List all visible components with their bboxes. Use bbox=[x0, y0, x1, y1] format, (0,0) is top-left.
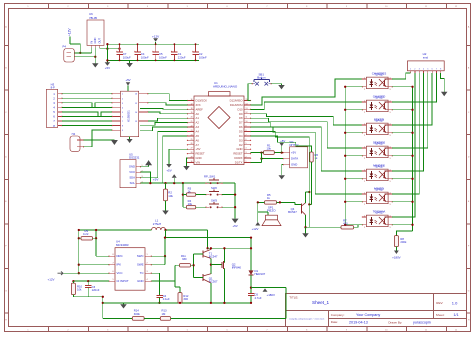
svg-text:TLP627: TLP627 bbox=[374, 142, 384, 146]
svg-text:TITLE:: TITLE: bbox=[289, 295, 298, 299]
svg-text:100nF: 100nF bbox=[141, 55, 149, 59]
svg-text:16: 16 bbox=[135, 94, 137, 96]
svg-text:D8: D8 bbox=[239, 116, 243, 120]
svg-text:11: 11 bbox=[246, 117, 248, 119]
svg-text:TLP627: TLP627 bbox=[374, 96, 384, 100]
svg-text:0.22: 0.22 bbox=[83, 232, 89, 236]
svg-text:275uH: 275uH bbox=[153, 222, 161, 226]
svg-text:D11/MOSI: D11/MOSI bbox=[230, 103, 243, 107]
svg-text:7: 7 bbox=[246, 134, 247, 136]
svg-text:8: 8 bbox=[112, 254, 113, 256]
svg-text:RP_SW1: RP_SW1 bbox=[204, 174, 216, 178]
svg-text:7: 7 bbox=[112, 263, 113, 265]
svg-text:13: 13 bbox=[135, 121, 137, 123]
svg-text:1: 1 bbox=[410, 69, 411, 71]
svg-text:3V3: 3V3 bbox=[196, 103, 201, 107]
svg-text:4: 4 bbox=[390, 215, 391, 217]
svg-text:22: 22 bbox=[191, 125, 193, 127]
svg-text:+12V: +12V bbox=[152, 35, 160, 39]
svg-text:+12V: +12V bbox=[252, 227, 259, 231]
svg-text:GND: GND bbox=[291, 163, 297, 167]
svg-text:GND: GND bbox=[137, 279, 143, 283]
svg-text:2: 2 bbox=[364, 158, 365, 160]
svg-text:GND: GND bbox=[129, 165, 135, 169]
svg-text:+: + bbox=[152, 49, 154, 53]
svg-text:300k: 300k bbox=[134, 312, 141, 316]
svg-text:HER107: HER107 bbox=[255, 272, 266, 276]
svg-text:GND: GND bbox=[93, 38, 97, 44]
svg-text:+5V: +5V bbox=[125, 78, 130, 82]
svg-text:10k: 10k bbox=[188, 202, 193, 206]
svg-text:120nF: 120nF bbox=[92, 288, 100, 292]
svg-text:A6: A6 bbox=[196, 138, 200, 142]
svg-text:2: 2 bbox=[364, 112, 365, 114]
svg-text:TLP627: TLP627 bbox=[374, 165, 384, 169]
svg-text:5: 5 bbox=[246, 143, 247, 145]
svg-text:Sheet:: Sheet: bbox=[436, 313, 445, 317]
svg-text:1: 1 bbox=[364, 77, 365, 79]
svg-text:10k: 10k bbox=[267, 147, 272, 151]
svg-text:28: 28 bbox=[191, 152, 193, 154]
svg-text:3: 3 bbox=[390, 112, 391, 114]
svg-text:+5V: +5V bbox=[105, 66, 110, 70]
svg-text:SWC: SWC bbox=[137, 254, 144, 258]
svg-text:12: 12 bbox=[246, 112, 248, 114]
svg-text:3: 3 bbox=[246, 152, 247, 154]
svg-text:3: 3 bbox=[419, 69, 420, 71]
svg-text:78L05: 78L05 bbox=[89, 16, 97, 20]
svg-text:K155ID1: K155ID1 bbox=[127, 110, 131, 122]
svg-text:smd: smd bbox=[423, 55, 429, 59]
svg-text:10k: 10k bbox=[168, 194, 173, 198]
svg-text:+: + bbox=[116, 49, 118, 53]
svg-text:4: 4 bbox=[390, 123, 391, 125]
svg-text:6: 6 bbox=[122, 116, 123, 118]
svg-text:yurascopin: yurascopin bbox=[413, 321, 431, 325]
svg-text:+5V: +5V bbox=[153, 178, 160, 182]
svg-text:CI INPUT: CI INPUT bbox=[117, 279, 129, 283]
svg-text:DATA: DATA bbox=[291, 157, 298, 161]
svg-text:4: 4 bbox=[390, 146, 391, 148]
svg-text:330: 330 bbox=[182, 257, 187, 261]
svg-text:1: 1 bbox=[246, 161, 247, 163]
svg-text:0.1uF: 0.1uF bbox=[163, 297, 170, 301]
svg-text:D2: D2 bbox=[239, 143, 243, 147]
svg-text:3: 3 bbox=[122, 103, 123, 105]
svg-text:2: 2 bbox=[246, 156, 247, 158]
svg-text:P4: P4 bbox=[63, 45, 67, 49]
svg-text:17: 17 bbox=[191, 103, 193, 105]
svg-text:D7: D7 bbox=[239, 121, 243, 125]
svg-text:2: 2 bbox=[364, 89, 365, 91]
svg-text:1: 1 bbox=[364, 215, 365, 217]
svg-text:ARDUINO_NANO: ARDUINO_NANO bbox=[213, 85, 238, 89]
svg-text:A0: A0 bbox=[196, 112, 200, 116]
svg-text:TC: TC bbox=[140, 271, 144, 275]
svg-text:27: 27 bbox=[191, 148, 193, 150]
svg-text:1: 1 bbox=[147, 254, 148, 256]
svg-text:4: 4 bbox=[390, 192, 391, 194]
svg-text:14: 14 bbox=[246, 103, 248, 105]
svg-text:2: 2 bbox=[364, 204, 365, 206]
svg-text:+180V: +180V bbox=[267, 293, 276, 297]
svg-text:TLP627: TLP627 bbox=[374, 73, 384, 77]
svg-text:7: 7 bbox=[436, 69, 437, 71]
svg-text:10k: 10k bbox=[77, 288, 82, 292]
svg-text:100uF: 100uF bbox=[123, 55, 131, 59]
svg-text:4: 4 bbox=[390, 77, 391, 79]
svg-text:VIN: VIN bbox=[196, 161, 201, 165]
svg-text:16: 16 bbox=[191, 99, 193, 101]
svg-text:100nF: 100nF bbox=[159, 55, 167, 59]
svg-text:MC34063: MC34063 bbox=[116, 243, 129, 247]
svg-text:21: 21 bbox=[191, 121, 193, 123]
svg-text:+5V: +5V bbox=[196, 147, 201, 151]
svg-text:220uF: 220uF bbox=[178, 55, 186, 59]
svg-text:1: 1 bbox=[364, 100, 365, 102]
svg-text:A3: A3 bbox=[196, 125, 200, 129]
svg-text:+12V: +12V bbox=[68, 28, 72, 36]
svg-text:100nF: 100nF bbox=[199, 55, 207, 59]
svg-text:D4: D4 bbox=[239, 134, 243, 138]
svg-text:1: 1 bbox=[364, 192, 365, 194]
svg-text:RESET: RESET bbox=[196, 152, 205, 156]
svg-text:9: 9 bbox=[246, 125, 247, 127]
svg-text:+: + bbox=[171, 49, 173, 53]
svg-text:25: 25 bbox=[191, 139, 193, 141]
svg-text:A7: A7 bbox=[196, 143, 200, 147]
svg-text:GND: GND bbox=[236, 147, 242, 151]
svg-text:+5V: +5V bbox=[232, 224, 237, 228]
svg-text:29: 29 bbox=[191, 156, 193, 158]
svg-text:18: 18 bbox=[191, 108, 193, 110]
svg-text:Date:: Date: bbox=[331, 320, 338, 324]
svg-text:DS3231: DS3231 bbox=[129, 156, 140, 160]
svg-text:6: 6 bbox=[246, 139, 247, 141]
svg-text:+: + bbox=[134, 49, 136, 53]
svg-text:D13/SCK: D13/SCK bbox=[196, 99, 208, 103]
svg-text:26: 26 bbox=[191, 143, 193, 145]
svg-text:3: 3 bbox=[390, 135, 391, 137]
svg-text:3: 3 bbox=[390, 158, 391, 160]
svg-text:D3: D3 bbox=[239, 138, 243, 142]
svg-text:19: 19 bbox=[191, 112, 193, 114]
svg-text:8: 8 bbox=[440, 69, 441, 71]
svg-text:TLP627: TLP627 bbox=[374, 188, 384, 192]
svg-text:4: 4 bbox=[390, 169, 391, 171]
svg-text:+12V: +12V bbox=[48, 278, 55, 282]
svg-text:+180V: +180V bbox=[392, 255, 401, 259]
svg-text:2: 2 bbox=[364, 181, 365, 183]
svg-text:10: 10 bbox=[246, 121, 248, 123]
svg-text:TLP627: TLP627 bbox=[374, 211, 384, 215]
svg-text:4.7uF: 4.7uF bbox=[255, 296, 262, 300]
svg-text:4: 4 bbox=[122, 107, 123, 109]
svg-text:BC547: BC547 bbox=[288, 210, 297, 214]
svg-text:3: 3 bbox=[390, 89, 391, 91]
svg-text:BC307: BC307 bbox=[209, 280, 218, 284]
svg-text:2: 2 bbox=[414, 69, 415, 71]
svg-text:2: 2 bbox=[364, 227, 365, 229]
svg-text:SWE: SWE bbox=[137, 263, 144, 267]
svg-text:14: 14 bbox=[135, 112, 137, 114]
svg-text:4: 4 bbox=[246, 148, 247, 150]
svg-text:20: 20 bbox=[191, 117, 193, 119]
svg-text:TLP627: TLP627 bbox=[374, 119, 384, 123]
svg-text:SW2: SW2 bbox=[211, 186, 217, 190]
svg-text:200k: 200k bbox=[400, 240, 407, 244]
svg-text:5: 5 bbox=[112, 279, 113, 281]
svg-text:D0/RX: D0/RX bbox=[234, 156, 242, 160]
svg-text:A1: A1 bbox=[196, 116, 200, 120]
svg-text:7: 7 bbox=[122, 121, 123, 123]
svg-text:8-P: 8-P bbox=[51, 86, 55, 90]
svg-text:1: 1 bbox=[364, 146, 365, 148]
svg-text:A2: A2 bbox=[196, 121, 200, 125]
svg-text:8: 8 bbox=[246, 130, 247, 132]
svg-text:4: 4 bbox=[147, 279, 148, 281]
svg-text:23: 23 bbox=[191, 130, 193, 132]
svg-text:SW3: SW3 bbox=[211, 198, 217, 202]
svg-text:6: 6 bbox=[112, 271, 113, 273]
svg-text:1/1: 1/1 bbox=[454, 313, 459, 317]
svg-text:13: 13 bbox=[246, 108, 248, 110]
svg-text:SDA: SDA bbox=[129, 176, 135, 180]
svg-text:3: 3 bbox=[390, 227, 391, 229]
svg-text:24: 24 bbox=[191, 134, 193, 136]
svg-text:OUT: OUT bbox=[98, 38, 102, 44]
svg-text:IRF840: IRF840 bbox=[232, 266, 242, 270]
svg-text:IPK: IPK bbox=[117, 263, 122, 267]
svg-text:1.0: 1.0 bbox=[452, 300, 458, 305]
svg-text:D9: D9 bbox=[239, 112, 243, 116]
svg-text:Your Company: Your Company bbox=[356, 313, 380, 317]
svg-text:REV:: REV: bbox=[436, 301, 443, 305]
svg-text:30: 30 bbox=[191, 161, 193, 163]
svg-text:Drawn By:: Drawn By: bbox=[388, 320, 402, 324]
svg-text:RESET: RESET bbox=[233, 152, 242, 156]
svg-text:SCL: SCL bbox=[130, 181, 136, 185]
svg-text:300: 300 bbox=[183, 297, 188, 301]
svg-text:PIEZO: PIEZO bbox=[267, 209, 276, 213]
svg-text:D10: D10 bbox=[237, 107, 243, 111]
svg-text:2: 2 bbox=[364, 135, 365, 137]
svg-text:easyeda.com/yurascopin ~ nixie: easyeda.com/yurascopin ~ nixie clock bbox=[289, 317, 325, 320]
svg-text:1: 1 bbox=[364, 123, 365, 125]
svg-text:8: 8 bbox=[122, 126, 123, 128]
svg-text:Sheet_1: Sheet_1 bbox=[312, 300, 330, 305]
svg-text:+: + bbox=[192, 49, 194, 53]
svg-text:5: 5 bbox=[122, 112, 123, 114]
svg-text:5: 5 bbox=[427, 69, 428, 71]
svg-text:15: 15 bbox=[246, 99, 248, 101]
svg-text:Company:: Company: bbox=[331, 313, 345, 317]
svg-text:D1/TX: D1/TX bbox=[235, 161, 243, 165]
svg-text:VCC: VCC bbox=[129, 170, 135, 174]
svg-text:H4: H4 bbox=[72, 132, 76, 136]
svg-text:1: 1 bbox=[364, 169, 365, 171]
svg-text:3: 3 bbox=[390, 204, 391, 206]
svg-text:6: 6 bbox=[432, 69, 433, 71]
svg-text:15: 15 bbox=[135, 103, 137, 105]
svg-text:+5V: +5V bbox=[291, 151, 296, 155]
svg-text:9: 9 bbox=[122, 130, 123, 132]
svg-text:3: 3 bbox=[147, 271, 148, 273]
svg-text:GND: GND bbox=[196, 156, 202, 160]
svg-text:AREF: AREF bbox=[196, 107, 204, 111]
svg-text:A4: A4 bbox=[196, 130, 200, 134]
svg-text:IN: IN bbox=[89, 41, 93, 44]
svg-text:4: 4 bbox=[423, 69, 424, 71]
svg-text:1: 1 bbox=[122, 94, 123, 96]
svg-text:+5V: +5V bbox=[166, 169, 171, 173]
svg-text:4: 4 bbox=[390, 100, 391, 102]
svg-text:DRC: DRC bbox=[117, 254, 123, 258]
svg-text:2: 2 bbox=[122, 98, 123, 100]
svg-text:D12/MISO: D12/MISO bbox=[230, 99, 243, 103]
svg-text:3: 3 bbox=[390, 181, 391, 183]
svg-text:D6: D6 bbox=[239, 125, 243, 129]
svg-text:VCC: VCC bbox=[117, 271, 123, 275]
svg-text:2: 2 bbox=[147, 263, 148, 265]
svg-text:D5: D5 bbox=[239, 130, 243, 134]
svg-text:2019-04-13: 2019-04-13 bbox=[349, 321, 368, 325]
svg-text:A5: A5 bbox=[196, 134, 200, 138]
svg-text:470: 470 bbox=[343, 221, 348, 225]
